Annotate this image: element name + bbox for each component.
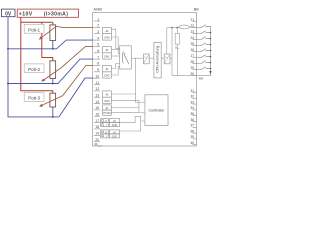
svg-text:6: 6 [97, 49, 99, 53]
AI box PT100 group [103, 105, 112, 110]
svg-text:32: 32 [190, 95, 194, 99]
AI box channel group 1 [103, 46, 112, 52]
wire pin30 M line [172, 75, 211, 77]
wire oval to pin22 [189, 27, 196, 29]
CH7 box [109, 134, 119, 138]
svg-text:34: 34 [190, 106, 194, 110]
wire PT100 to trunk [111, 112, 139, 114]
wire AI4 to trunk [111, 107, 139, 109]
wire P1 wiper to pin2 [57, 26, 94, 27]
svg-text:13: 13 [95, 94, 99, 98]
svg-text:17: 17 [95, 119, 99, 123]
mux wiper symbol [121, 52, 124, 64]
AI box channel group 2 [103, 65, 112, 71]
svg-text:(I>30mA): (I>30mA) [44, 12, 68, 18]
svg-text:28: 28 [190, 60, 194, 64]
wire ADC to CPU interface [149, 57, 154, 59]
U range box group 6 [101, 130, 109, 134]
P1 wiper arrow [41, 26, 57, 38]
CH3 box [103, 97, 112, 103]
svg-text:AI: AI [106, 106, 109, 110]
wire DAC top feed [166, 28, 168, 54]
switch bank bus [210, 26, 212, 75]
svg-text:18: 18 [95, 125, 99, 129]
left pin ticks 1-20 [94, 21, 100, 142]
switch pin29 [197, 67, 211, 70]
svg-text:35: 35 [190, 112, 194, 116]
svg-text:12: 12 [95, 87, 99, 91]
switch pin26 [197, 49, 211, 52]
resistor Ue [175, 33, 179, 44]
svg-text:33: 33 [190, 100, 194, 104]
svg-text:15: 15 [95, 106, 99, 110]
potentiometer P2 [50, 61, 56, 79]
wire +10V distribution bar [21, 21, 53, 23]
svg-text:AI: AI [105, 29, 108, 33]
wire AI3 to trunk [111, 93, 135, 95]
svg-text:2: 2 [97, 24, 99, 28]
junction P3 bottom [52, 107, 54, 117]
Poti-3 label [24, 93, 44, 102]
wire P3 wiper to pin8 [63, 65, 94, 95]
svg-text:31: 31 [190, 89, 194, 93]
right pin numbers 21-30 [190, 18, 194, 76]
svg-text:CH6: CH6 [112, 123, 118, 127]
switch pin27 [197, 55, 211, 58]
junction P1 bottom [52, 41, 54, 49]
svg-text:3: 3 [97, 30, 99, 34]
right pin ticks 31-40 [193, 93, 197, 145]
ADC box [143, 54, 149, 64]
svg-text:21: 21 [190, 18, 194, 22]
CH0 box [103, 34, 112, 40]
svg-text:Controller: Controller [148, 109, 165, 113]
wire group6 to controller junction [120, 121, 141, 131]
svg-text:Poti-1: Poti-1 [28, 27, 40, 32]
svg-text:Poti-3: Poti-3 [28, 96, 40, 101]
switch pin22 [197, 25, 211, 28]
svg-text:40: 40 [190, 141, 194, 145]
CPU-Anschaltung box [154, 42, 161, 78]
svg-text:4M: 4M [199, 76, 204, 80]
switch pin24 [197, 37, 211, 40]
AI box channel group 5 [109, 119, 119, 123]
wire oval to node M [172, 27, 179, 29]
node resistor junction dot [176, 27, 178, 29]
switch pin23 [197, 31, 211, 34]
wire DAC output to M rail [170, 57, 172, 59]
CH2 box [103, 72, 112, 78]
+10V box [17, 9, 78, 17]
svg-text:23: 23 [190, 30, 194, 34]
I range box group 5 [101, 123, 109, 127]
wire P3 bottom blue to pin10 [59, 78, 94, 117]
Poti-2 label [24, 64, 44, 73]
svg-text:11: 11 [96, 81, 100, 85]
U range box group 5 [101, 119, 109, 123]
wire AI0 to mux [111, 29, 119, 48]
right pin numbers 31-40 [190, 89, 194, 145]
svg-text:AI: AI [105, 48, 108, 52]
junction P2 bottom [52, 79, 54, 84]
wire CH3 to controller [111, 100, 145, 112]
P2 wiper arrow [43, 68, 62, 81]
wire resistor to M rail [176, 44, 178, 76]
svg-text:8: 8 [97, 62, 99, 66]
svg-text:38: 38 [190, 129, 194, 133]
potentiometer P1 [50, 25, 56, 41]
svg-text:36: 36 [190, 118, 194, 122]
wire 0V blue rail [8, 17, 59, 117]
svg-text:29: 29 [190, 66, 194, 70]
switch pin28 [197, 61, 211, 64]
svg-text:CH0: CH0 [104, 35, 110, 39]
PT100 box [103, 110, 112, 115]
bus arrow to pin30 [209, 71, 211, 74]
wire CPU interface to DAC [161, 57, 164, 59]
wire P2 wiper to pin5 [62, 46, 94, 67]
svg-text:Poti-2: Poti-2 [28, 67, 40, 72]
CH1 box [103, 53, 112, 59]
wire mux to ADC [131, 57, 143, 59]
svg-text:26: 26 [190, 48, 194, 52]
wire P1 bottom blue to pin4 [8, 40, 94, 49]
wire +10V red rail B [42, 22, 53, 61]
wire AI2 to mux [111, 64, 119, 69]
Poti-1 label [24, 24, 44, 33]
svg-text:24: 24 [190, 36, 194, 40]
svg-text:BB: BB [194, 8, 199, 12]
P3 wiper arrow [41, 96, 63, 106]
AI box channel group 6 [109, 130, 119, 134]
I range box group 6 [101, 134, 109, 138]
svg-text:5: 5 [97, 43, 99, 47]
svg-text:25: 25 [190, 42, 194, 46]
left pin numbers 1-20 [95, 17, 99, 142]
svg-text:27: 27 [190, 54, 194, 58]
svg-text:7: 7 [97, 55, 99, 59]
AI box channel group 3 [103, 91, 112, 97]
wire +10V red rail A [21, 17, 53, 93]
wire P2 bottom blue to pin7 [8, 59, 94, 83]
svg-text:22: 22 [190, 24, 194, 28]
svg-text:CPU-Anschaltung: CPU-Anschaltung [156, 46, 160, 73]
svg-text:AI/A0: AI/A0 [94, 8, 103, 12]
module outline box [93, 13, 197, 147]
svg-text:10: 10 [95, 74, 99, 78]
svg-text:19: 19 [95, 132, 99, 136]
potentiometer P3 [50, 93, 56, 107]
Controller box [145, 95, 168, 126]
svg-text:CH3: CH3 [104, 99, 110, 103]
wire group5 to controller [120, 116, 145, 122]
svg-text:CH7: CH7 [112, 134, 118, 138]
wire CH2 to mux [111, 67, 119, 76]
wire M vertical rail [171, 28, 173, 76]
svg-text:CH1: CH1 [104, 55, 110, 59]
svg-text:AI: AI [105, 93, 108, 97]
wire CH1 to mux [111, 55, 119, 57]
svg-text:PT100: PT100 [103, 112, 111, 115]
0V box [1, 9, 15, 17]
svg-text:+10V: +10V [19, 12, 33, 18]
wire AI1 to mux [111, 49, 119, 51]
AI box channel group 0 [103, 27, 112, 33]
svg-text:e: e [178, 48, 180, 50]
constant current source oval [179, 25, 189, 29]
wire mux output trunk to controller [136, 58, 145, 102]
CH6 box [109, 123, 119, 127]
node M junction dot [171, 27, 173, 29]
svg-text:20: 20 [95, 138, 99, 142]
wire CH0 to mux [111, 37, 119, 53]
svg-text:39: 39 [190, 135, 194, 139]
DAC box [164, 54, 170, 64]
svg-text:CH2: CH2 [104, 74, 110, 78]
multiplexer box U-MUX [120, 46, 132, 69]
right pin ticks 21-30 [193, 22, 197, 76]
svg-text:AI: AI [105, 67, 108, 71]
svg-text:14: 14 [95, 100, 99, 104]
svg-text:1: 1 [97, 17, 99, 21]
wire +10V to poti1 [52, 22, 54, 25]
svg-text:37: 37 [190, 124, 194, 128]
svg-text:0V: 0V [5, 11, 12, 17]
switch pin25 [197, 43, 211, 46]
svg-text:4: 4 [97, 36, 99, 40]
svg-text:16: 16 [95, 113, 99, 117]
svg-text:9: 9 [97, 68, 99, 72]
